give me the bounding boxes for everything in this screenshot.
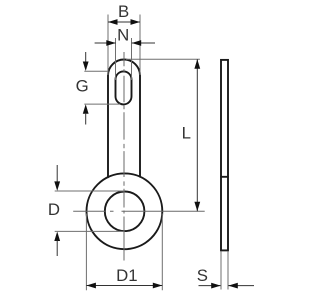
- dimension N (slot width): [95, 26, 155, 80]
- svg-text:D: D: [48, 200, 60, 219]
- dimension L (length to hole center): [126, 59, 200, 211]
- dimension D1 (ring outer diameter): [86, 214, 162, 291]
- svg-text:G: G: [76, 76, 89, 95]
- side view: feature line at ring tangent: [221, 176, 228, 178]
- dimension S (material thickness): [197, 252, 254, 290]
- dimension G (slot length): [76, 52, 121, 125]
- front view: tag body outline: [108, 60, 140, 178]
- svg-text:B: B: [118, 2, 129, 21]
- svg-text:D1: D1: [116, 266, 137, 285]
- front view: slot (oblong hole, G x N): [116, 71, 132, 104]
- horizontal centerline: [73, 210, 205, 212]
- dimension D (hole diameter): [48, 165, 125, 256]
- svg-text:S: S: [197, 266, 208, 285]
- svg-text:N: N: [117, 26, 129, 45]
- svg-text:L: L: [182, 123, 191, 142]
- dimension B (stem width): [108, 2, 140, 75]
- front view: ring outer circle: [87, 173, 163, 249]
- front view: hole circle (D): [105, 192, 145, 232]
- side view: flat bar: [221, 60, 228, 251]
- vertical centerline: [123, 52, 125, 261]
